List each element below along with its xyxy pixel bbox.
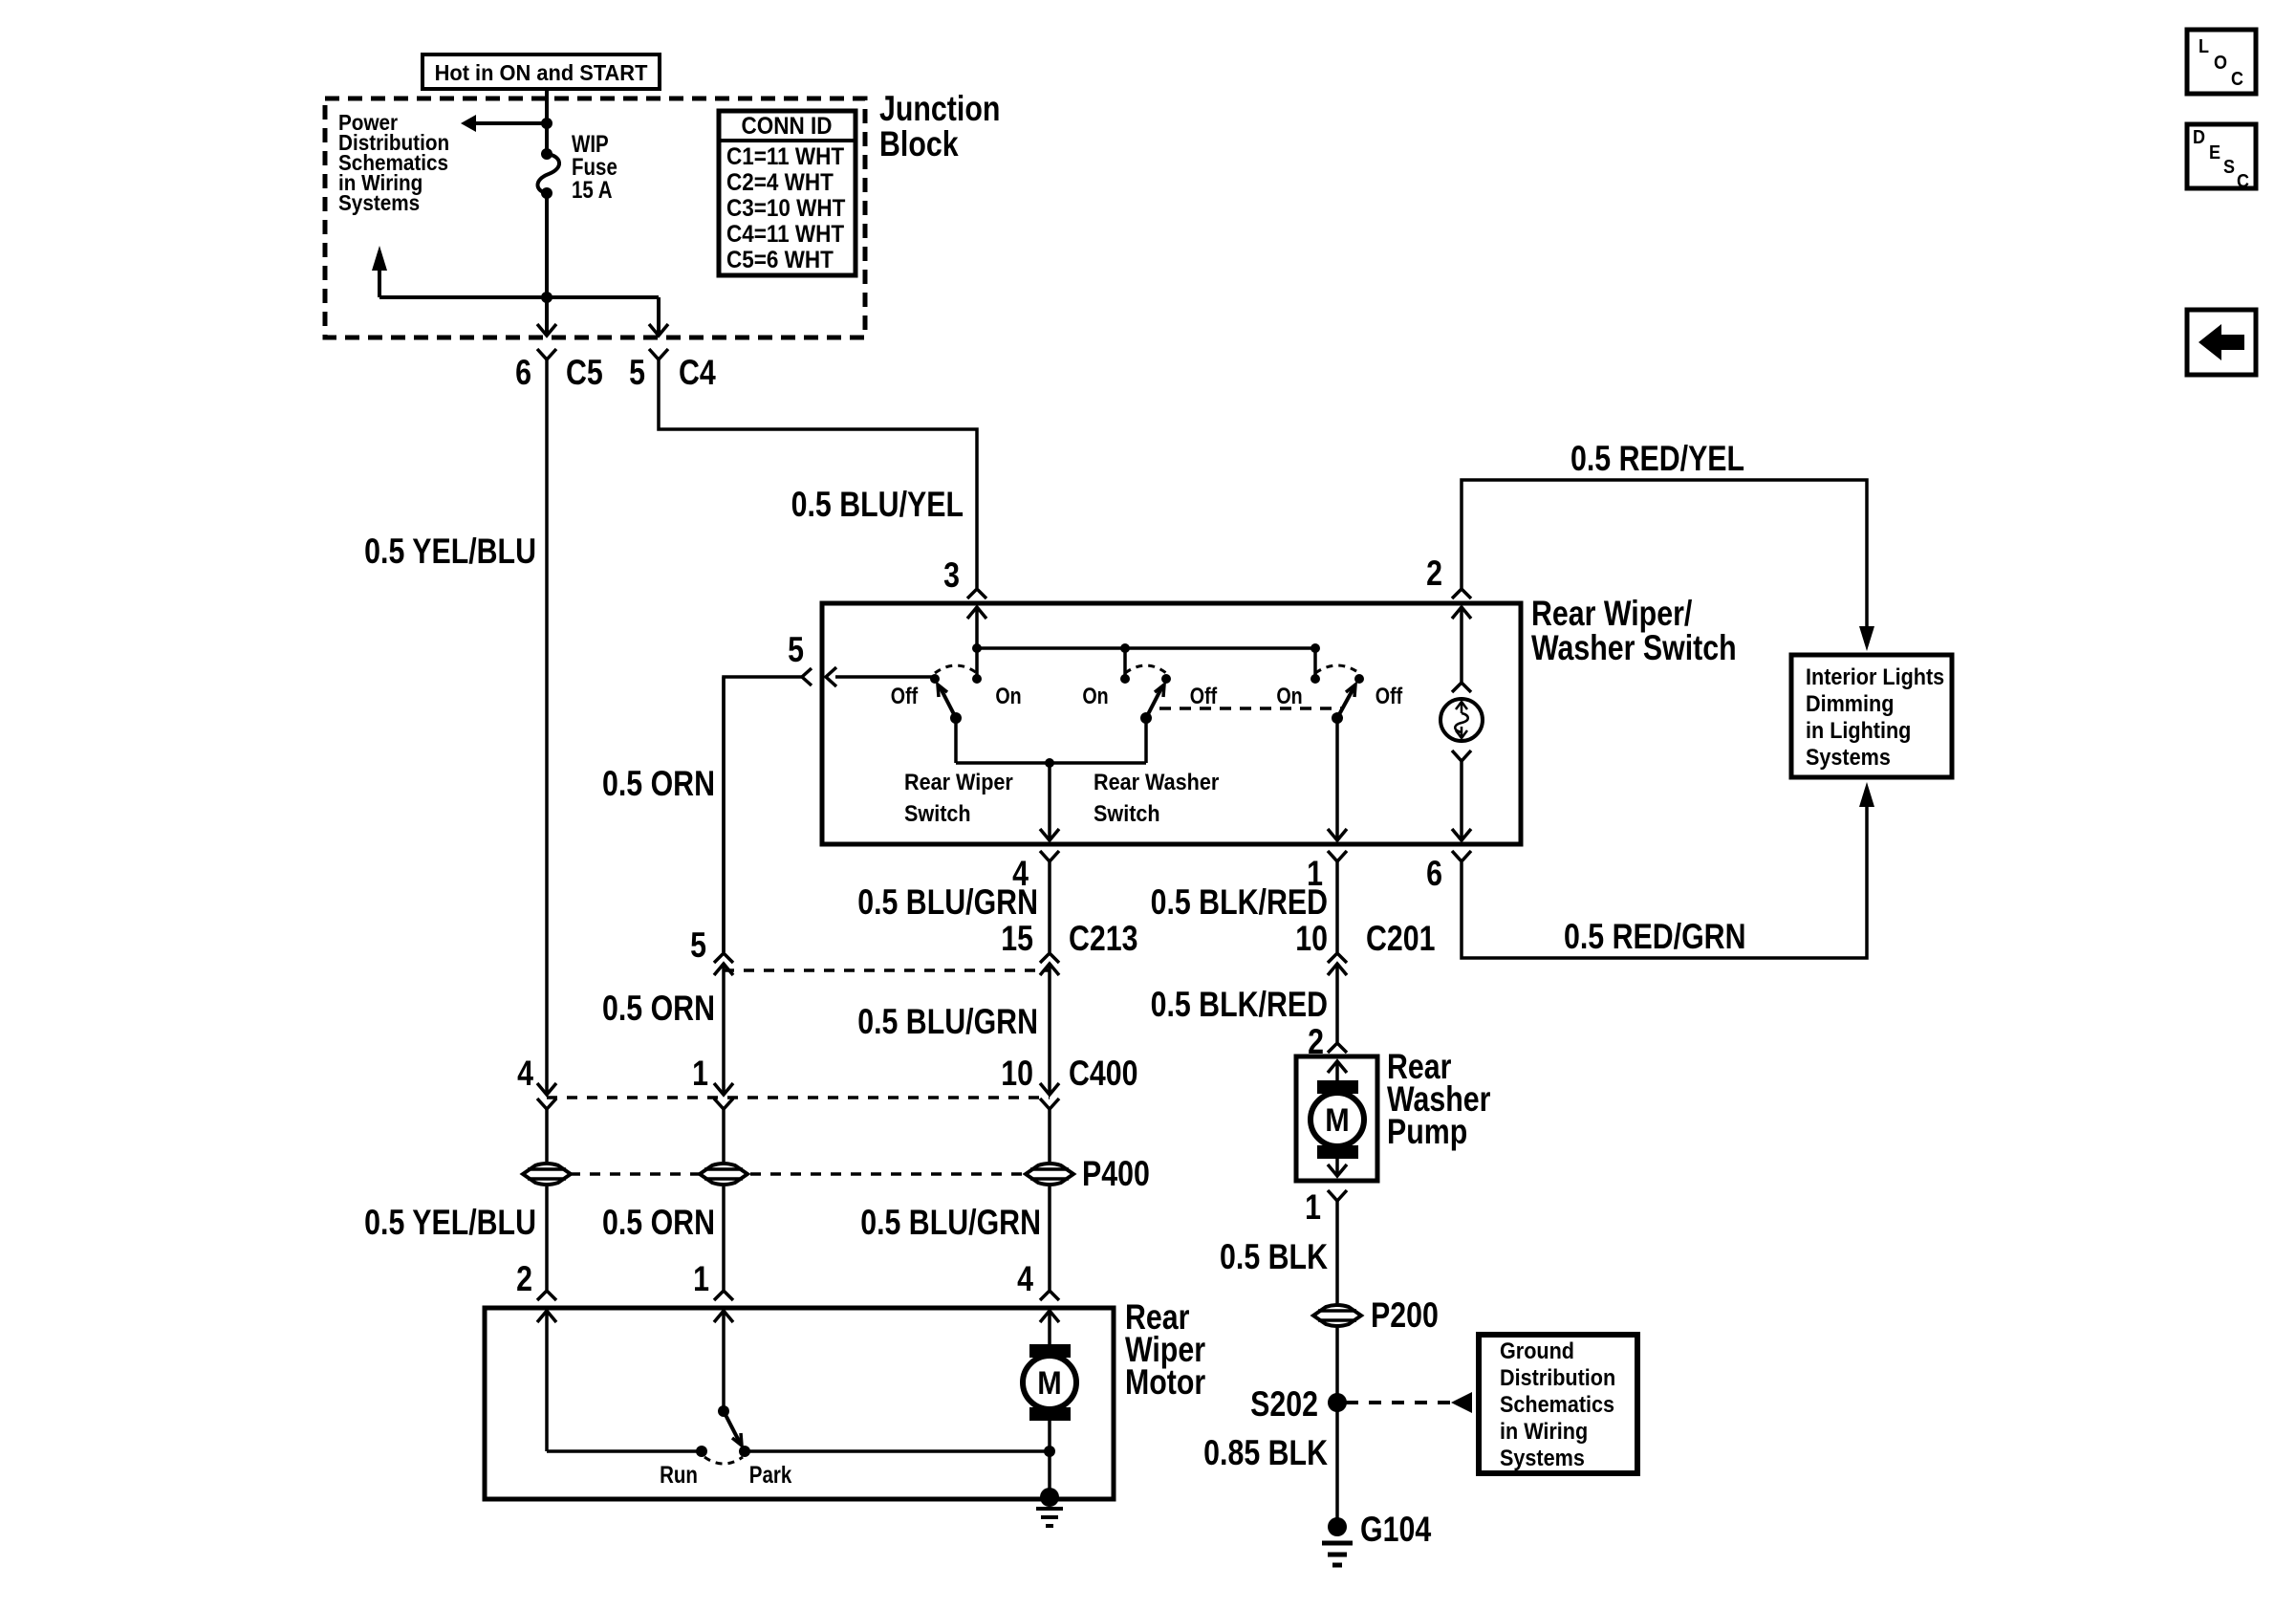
svg-text:4: 4	[1017, 1259, 1033, 1299]
fuse WIP upper terminal dot	[541, 148, 552, 160]
rear washer switch Off label	[1190, 683, 1218, 708]
third switch lever	[1332, 685, 1355, 724]
svg-text:0.5 BLU/GRN: 0.5 BLU/GRN	[857, 1002, 1038, 1042]
svg-text:Pump: Pump	[1387, 1112, 1467, 1152]
svg-text:Systems: Systems	[338, 190, 420, 215]
junction block label	[879, 89, 1000, 164]
rear wiper switch off contact	[826, 667, 940, 686]
wire label 0.5 RED/GRN	[1564, 917, 1745, 957]
wire label 0.5 RED/YEL	[1570, 439, 1744, 479]
svg-text:10: 10	[1295, 919, 1328, 959]
switch pin 3 entry arrow	[967, 607, 986, 648]
svg-text:Rear Wiper: Rear Wiper	[904, 769, 1013, 794]
svg-text:Motor: Motor	[1125, 1362, 1205, 1403]
C400 dashed line	[547, 1096, 1050, 1099]
svg-text:Systems: Systems	[1500, 1445, 1585, 1470]
svg-text:15: 15	[1001, 919, 1033, 959]
wire 0.5 YEL/BLU lower	[545, 1186, 549, 1290]
svg-text:C2=4 WHT: C2=4 WHT	[726, 169, 834, 196]
svg-text:C: C	[2231, 69, 2243, 90]
rear wiper/washer switch box	[822, 603, 1521, 844]
rear washer pump title	[1387, 1047, 1490, 1152]
P200 label	[1371, 1295, 1439, 1336]
rear washer switch sub-label	[1094, 769, 1219, 826]
switch pin 2 connector	[1426, 554, 1471, 598]
svg-text:C400: C400	[1069, 1054, 1138, 1094]
svg-text:0.5 BLU/GRN: 0.5 BLU/GRN	[860, 1203, 1041, 1243]
motor lower wire	[1044, 1421, 1055, 1494]
connector C400 pin 10	[1001, 1054, 1137, 1109]
svg-text:C5: C5	[566, 353, 603, 393]
svg-text:5: 5	[788, 630, 804, 670]
svg-text:Ground: Ground	[1500, 1338, 1574, 1363]
wire label 0.5 BLU/YEL	[791, 485, 964, 525]
svg-text:6: 6	[515, 353, 531, 393]
svg-text:0.5 RED/YEL: 0.5 RED/YEL	[1570, 439, 1744, 479]
wire 0.5 BLK	[1335, 1201, 1339, 1303]
svg-text:Switch: Switch	[1094, 800, 1160, 826]
svg-text:0.5 BLK/RED: 0.5 BLK/RED	[1151, 882, 1328, 923]
third switch On label	[1276, 683, 1302, 708]
rear washer switch on-drop	[1120, 648, 1130, 684]
svg-text:0.5 RED/GRN: 0.5 RED/GRN	[1564, 917, 1745, 957]
wire 0.85 BLK	[1335, 1403, 1339, 1518]
power feed arrow left	[461, 115, 547, 132]
washer pivot drop	[1144, 718, 1148, 763]
junction block bus wire	[379, 295, 659, 299]
rear wiper switch travel arc	[935, 665, 977, 673]
wire label 0.5 ORN lower	[602, 1203, 715, 1243]
svg-text:C4=11 WHT: C4=11 WHT	[726, 221, 845, 248]
grommet P400 left	[523, 1164, 571, 1185]
wire YEL/BLU to P400	[545, 1109, 549, 1162]
run/park pivot	[718, 1405, 729, 1417]
wire to C4 exit	[649, 297, 668, 336]
wire label 0.5 BLK/RED upper	[1151, 882, 1328, 923]
CONN ID table header	[719, 113, 856, 141]
ground G104	[1322, 1510, 1431, 1565]
svg-text:O: O	[2214, 53, 2227, 74]
wire label 0.5 BLK	[1220, 1237, 1328, 1277]
switch pin 3 connector	[943, 555, 986, 598]
run contact	[547, 1446, 707, 1457]
illumination lamp lower connector	[1452, 751, 1471, 840]
svg-text:S: S	[2223, 157, 2235, 178]
switch pin 4 exit wire	[1040, 763, 1059, 840]
rear washer switch travel arc	[1125, 665, 1166, 673]
connector C213 pin 5	[690, 925, 733, 975]
junction block dashed box	[325, 98, 865, 337]
power distribution up arrow	[372, 246, 387, 297]
connector C5 pin 6	[515, 349, 603, 393]
C213 dashed line	[724, 968, 1050, 972]
interior lights note text	[1806, 664, 1944, 770]
wire label 0.5 BLU/GRN lower	[860, 1203, 1041, 1243]
run/park travel arc	[704, 1457, 743, 1464]
rear wiper switch lever	[938, 685, 962, 724]
wire 0.5 ORN lower	[722, 1186, 726, 1290]
junction dot A	[541, 118, 552, 129]
svg-text:Block: Block	[879, 124, 959, 164]
svg-text:Off: Off	[1190, 683, 1218, 708]
wire 0.5 BLU/GRN mid	[1048, 964, 1051, 1095]
wire 0.5 BLU/YEL	[659, 359, 977, 588]
CONN ID table box	[719, 111, 856, 275]
wire 0.5 BLK/RED upper	[1335, 861, 1339, 952]
wire 0.5 ORN exit	[724, 677, 802, 952]
wire label 0.5 YEL/BLU lower	[364, 1203, 536, 1243]
connector C400 pin 1	[692, 1054, 733, 1109]
svg-text:0.5 YEL/BLU: 0.5 YEL/BLU	[364, 532, 536, 572]
S202 dashed reference	[1346, 1392, 1472, 1413]
svg-text:Off: Off	[1375, 683, 1403, 708]
grommet P400 middle	[700, 1164, 747, 1185]
switch pin 6 connector	[1426, 851, 1471, 894]
rear washer switch off contact	[1161, 674, 1171, 684]
arrow up into interior lights box	[1859, 782, 1874, 807]
svg-text:Junction: Junction	[879, 89, 1000, 129]
svg-text:0.5 ORN: 0.5 ORN	[602, 1203, 715, 1243]
splice S202	[1250, 1384, 1347, 1425]
rear wiper switch sub-label	[904, 769, 1013, 826]
rear wiper motor title	[1125, 1297, 1205, 1403]
wire BLU/GRN to P400	[1048, 1109, 1051, 1162]
run/park lever	[724, 1411, 742, 1446]
switch internal rail	[972, 643, 1320, 653]
motor pin 1 entry	[714, 1311, 733, 1411]
wire 0.5 RED/GRN	[1462, 807, 1867, 958]
rear wiper switch Off label	[891, 683, 919, 708]
wire label 0.5 ORN upper	[602, 764, 715, 804]
rear washer switch lever	[1140, 685, 1164, 724]
motor pin 4 connector	[1017, 1259, 1059, 1300]
svg-text:On: On	[1276, 683, 1302, 708]
svg-text:3: 3	[943, 555, 960, 596]
illumination lamp	[1440, 699, 1483, 741]
arrow into interior lights box	[1859, 626, 1874, 651]
grommet P400 right	[1026, 1164, 1073, 1185]
wire to S202	[1335, 1328, 1339, 1403]
wiper pivot drop left	[954, 718, 958, 763]
svg-text:C3=10 WHT: C3=10 WHT	[726, 195, 846, 222]
LOC reference box	[2187, 30, 2256, 94]
rear wiper switch on-drop	[972, 648, 982, 684]
switch pin 1 exit wire	[1328, 718, 1347, 840]
svg-text:C5=6 WHT: C5=6 WHT	[726, 247, 834, 273]
svg-text:C201: C201	[1366, 919, 1436, 959]
svg-text:C: C	[2237, 171, 2249, 192]
svg-text:C213: C213	[1069, 919, 1138, 959]
rear washer pump box	[1296, 1056, 1377, 1181]
back-arrow box	[2187, 310, 2256, 375]
wire 0.5 BLU/GRN upper	[1048, 861, 1051, 952]
wire from hot box to fuse	[545, 90, 549, 154]
connector C400 pin 4	[517, 1054, 556, 1109]
pump exit arrow	[1328, 1159, 1347, 1176]
rear wiper switch On label	[995, 683, 1021, 708]
interior lights box	[1791, 655, 1952, 777]
fuse WIP element	[538, 154, 560, 193]
svg-text:5: 5	[629, 353, 645, 393]
wire 0.5 ORN mid	[722, 964, 726, 1095]
svg-text:G104: G104	[1360, 1510, 1431, 1550]
svg-text:0.5 BLU/GRN: 0.5 BLU/GRN	[857, 882, 1038, 923]
motor pin 4 entry	[1040, 1311, 1059, 1344]
wire 0.5 BLU/GRN lower	[1048, 1186, 1051, 1290]
svg-text:Off: Off	[891, 683, 919, 708]
svg-text:15 A: 15 A	[572, 176, 613, 203]
pump pin 1 connector	[1305, 1187, 1347, 1228]
motor internal ground	[1036, 1488, 1063, 1526]
svg-text:Systems: Systems	[1806, 744, 1891, 770]
third switch Off label	[1375, 683, 1403, 708]
pivot join bar	[956, 758, 1146, 768]
svg-text:1: 1	[693, 1259, 709, 1299]
motor M symbol	[1023, 1344, 1076, 1421]
svg-text:S202: S202	[1250, 1384, 1318, 1425]
svg-text:Schematics: Schematics	[1500, 1391, 1614, 1417]
svg-text:0.85 BLK: 0.85 BLK	[1203, 1433, 1328, 1473]
svg-text:0.5 ORN: 0.5 ORN	[602, 989, 715, 1029]
motor pin 2 entry	[537, 1311, 556, 1451]
switch pin 4 connector	[1012, 851, 1059, 894]
svg-text:E: E	[2209, 142, 2220, 163]
hot in ON and START label box	[422, 54, 660, 89]
park contact	[739, 1446, 1050, 1457]
wire label 0.5 BLU/GRN mid	[857, 1002, 1038, 1042]
svg-text:2: 2	[516, 1259, 532, 1299]
svg-text:Run: Run	[660, 1461, 698, 1488]
fuse WIP value label	[572, 130, 617, 203]
svg-text:0.5 ORN: 0.5 ORN	[602, 764, 715, 804]
Run label	[660, 1461, 698, 1488]
svg-text:0.5 YEL/BLU: 0.5 YEL/BLU	[364, 1203, 536, 1243]
svg-text:10: 10	[1001, 1054, 1033, 1094]
mechanical link dashed	[1159, 707, 1342, 710]
ground distribution note box	[1479, 1335, 1637, 1473]
wire 0.5 RED/YEL	[1462, 480, 1867, 627]
svg-text:C1=11 WHT: C1=11 WHT	[726, 143, 845, 170]
svg-text:0.5 BLK: 0.5 BLK	[1220, 1237, 1328, 1277]
svg-text:C4: C4	[679, 353, 716, 393]
junction dot B	[541, 292, 552, 303]
connector C4 pin 5	[629, 349, 716, 393]
wire label 0.5 ORN mid	[602, 989, 715, 1029]
svg-text:On: On	[1082, 683, 1108, 708]
svg-text:M: M	[1325, 1102, 1349, 1139]
svg-text:6: 6	[1426, 854, 1442, 894]
motor pin 1 connector	[693, 1259, 733, 1300]
grommet P200	[1313, 1305, 1361, 1326]
wire fuse to bus	[545, 193, 549, 297]
rear wiper motor box	[485, 1308, 1114, 1499]
wire ORN to P400	[722, 1109, 726, 1162]
svg-text:L: L	[2199, 36, 2209, 57]
svg-text:P200: P200	[1371, 1295, 1439, 1336]
svg-text:M: M	[1037, 1365, 1061, 1402]
wire label 0.5 YEL/BLU	[364, 532, 536, 572]
third switch travel arc	[1315, 665, 1359, 673]
pump entry arrow	[1328, 1061, 1347, 1080]
wire 0.5 ORN upper segment	[722, 677, 726, 952]
svg-text:Hot in ON and START: Hot in ON and START	[435, 60, 648, 85]
wire to C5 exit	[537, 297, 556, 336]
svg-text:0.5 BLK/RED: 0.5 BLK/RED	[1151, 985, 1328, 1025]
wire 0.5 YEL/BLU vertical	[545, 359, 549, 1095]
fuse WIP lower terminal dot	[541, 187, 552, 199]
wire 0.5 BLK/RED to pump	[1308, 1022, 1347, 1062]
CONN ID table rows	[726, 143, 846, 273]
svg-text:P400: P400	[1082, 1154, 1150, 1194]
third switch on-drop	[1310, 648, 1320, 684]
wire label 0.5 BLU/GRN upper	[857, 882, 1038, 923]
svg-text:Park: Park	[749, 1461, 792, 1488]
svg-text:in Lighting: in Lighting	[1806, 717, 1911, 743]
third switch off contact	[1354, 674, 1364, 684]
svg-text:CONN ID: CONN ID	[742, 113, 833, 140]
svg-text:D: D	[2193, 127, 2205, 148]
P400 label	[1082, 1154, 1150, 1194]
svg-text:On: On	[995, 683, 1021, 708]
svg-text:0.5 BLU/YEL: 0.5 BLU/YEL	[791, 485, 964, 525]
svg-text:1: 1	[692, 1054, 708, 1094]
svg-text:Switch: Switch	[904, 800, 971, 826]
svg-text:Distribution: Distribution	[1500, 1364, 1615, 1390]
svg-text:Washer Switch: Washer Switch	[1531, 628, 1737, 668]
rear wiper/washer switch title	[1531, 594, 1737, 668]
svg-text:2: 2	[1426, 554, 1442, 594]
illumination lamp riser	[1452, 607, 1471, 692]
svg-text:4: 4	[517, 1054, 533, 1094]
wire label 0.85 BLK	[1203, 1433, 1328, 1473]
svg-text:5: 5	[690, 925, 706, 966]
wire label 0.5 BLK/RED mid	[1151, 985, 1328, 1025]
svg-text:1: 1	[1305, 1187, 1321, 1228]
rear washer switch On label	[1082, 683, 1108, 708]
svg-text:Interior Lights: Interior Lights	[1806, 664, 1944, 689]
Park label	[749, 1461, 792, 1488]
ground distribution note text	[1500, 1338, 1615, 1470]
switch pin 5 connector	[788, 630, 812, 685]
pump M symbol	[1310, 1080, 1364, 1159]
wire 0.5 BLK/RED mid	[1335, 964, 1339, 1042]
connector C201 pin 10	[1295, 919, 1435, 975]
svg-text:Dimming: Dimming	[1806, 690, 1894, 716]
DESC reference box	[2187, 124, 2256, 192]
svg-text:in Wiring: in Wiring	[1500, 1418, 1588, 1444]
P400 dashed line	[570, 1172, 1026, 1176]
svg-text:Rear Washer: Rear Washer	[1094, 769, 1219, 794]
motor pin 2 connector	[516, 1259, 556, 1300]
switch pin 1 connector	[1307, 851, 1347, 894]
connector C213 pin 15	[1001, 919, 1137, 975]
power distribution note text	[338, 110, 449, 215]
